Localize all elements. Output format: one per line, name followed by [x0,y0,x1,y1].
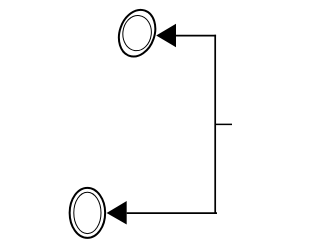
node B: bottom accepting-state double ellipse [70,188,106,238]
wire: bottom horizontal segment from bottom arrowhead to vertical bus [127,212,217,214]
node A: top accepting-state double ellipse (tilted) [113,5,161,62]
wire: top horizontal segment from vertical bus to top arrowhead [176,35,216,37]
wire: vertical bus line [214,35,216,214]
arrowhead into node A [156,24,176,48]
arrowhead into node B [107,201,127,225]
wire: short tick stub on the right of the vertical bus [215,123,232,125]
